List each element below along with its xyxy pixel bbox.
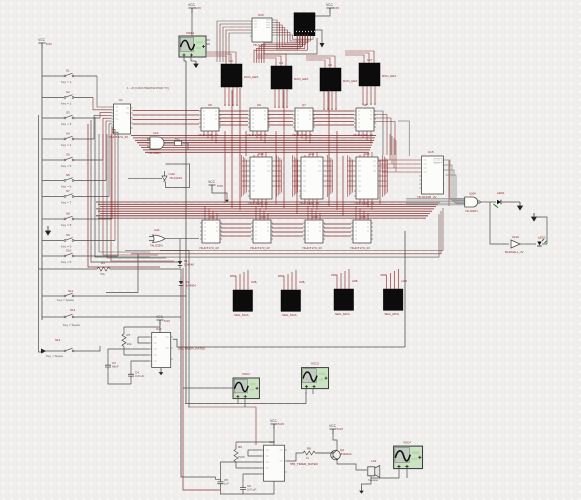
svg-text:555_TIMER_RATED: 555_TIMER_RATED — [290, 462, 318, 466]
svg-text:Key = 2: Key = 2 — [61, 102, 72, 106]
svg-text:1N4004: 1N4004 — [186, 284, 196, 288]
svg-text:U2B: U2B — [352, 279, 358, 283]
svg-text:DCD_HEX: DCD_HEX — [382, 74, 396, 78]
wire feeder from switch S2 to encoder U1 — [93, 98, 112, 110]
svg-text:DCD_HEX: DCD_HEX — [294, 77, 308, 81]
svg-text:74HCT173_4V: 74HCT173_4V — [199, 246, 219, 250]
svg-text:1 - 2f (COUNTER/KEYPAD TV): 1 - 2f (COUNTER/KEYPAD TV) — [127, 86, 169, 90]
svg-text:U2B: U2B — [401, 279, 407, 283]
wire feeder from switch S1 to encoder U1 — [97, 76, 112, 107]
wire bus horizontal between row1 and row2 counters — [131, 135, 376, 137]
wire bus verticals bus B to row3 tops — [204, 206, 206, 220]
wire NAND output to LED1 — [480, 201, 496, 203]
wire right vertical bus x405 from counter block down to 555 output — [404, 231, 406, 347]
wire stubs XSC2 — [237, 399, 239, 404]
svg-text:U4A: U4A — [154, 228, 160, 232]
wire U17 output to counter block — [173, 339, 405, 347]
svg-text:S10: S10 — [66, 249, 72, 253]
svg-text:1N4148: 1N4148 — [184, 263, 194, 267]
svg-text:SEG_MCA: SEG_MCA — [335, 312, 350, 316]
wire bundles between adjacent row1 counters — [219, 110, 248, 112]
svg-text:XSC3: XSC3 — [311, 362, 319, 366]
svg-text:S6: S6 — [66, 173, 70, 177]
svg-text:Key = 1: Key = 1 — [61, 80, 72, 84]
svg-text:Key = Space: Key = Space — [57, 298, 74, 302]
wire stubs below hex display U27 — [362, 86, 364, 105]
wire stubs XSC4 — [371, 469, 399, 479]
svg-text:U30: U30 — [258, 13, 264, 17]
svg-text:70k: 70k — [100, 272, 105, 276]
wire XWF1 output stubs — [184, 56, 186, 61]
svg-text:S12: S12 — [70, 308, 76, 312]
wire VCC V2 down to XWF1 — [191, 13, 193, 36]
wire VCC V4 to ground junction — [212, 190, 227, 197]
power VCC V1 5V keypad rail — [38, 38, 45, 48]
wire bundle from keypad feeders down left of block — [99, 134, 150, 252]
svg-text:U21A: U21A — [512, 235, 519, 239]
power VCC V6 for timer U18 — [270, 419, 277, 429]
power VCC V7 for Q2 — [329, 424, 336, 434]
svg-text:Key = 6: Key = 6 — [61, 185, 72, 189]
svg-text:U5: U5 — [208, 103, 212, 107]
svg-text:LED2: LED2 — [538, 236, 546, 240]
wire stubs above hex display U6B — [278, 276, 284, 290]
svg-text:U6: U6 — [257, 103, 261, 107]
wire feeder from switch S3 to encoder U1 — [100, 113, 112, 118]
wire C5 C6 to U18 — [221, 462, 262, 479]
svg-text:S11: S11 — [68, 289, 73, 293]
wire loop from arrow to LED2 branch — [534, 217, 547, 244]
svg-text:74HCT173_4V: 74HCT173_4V — [350, 246, 370, 250]
svg-text:SEG_MCA: SEG_MCA — [234, 313, 249, 317]
wire side bundles flanking row2 counters — [241, 155, 243, 197]
svg-text:74LS32N: 74LS32N — [150, 244, 163, 248]
svg-text:U7: U7 — [302, 103, 306, 107]
wire bundle right of last row1 counter down to row2 — [374, 111, 383, 155]
svg-text:U1: U1 — [119, 98, 123, 102]
wire feeder from switch S6 to encoder U1 — [106, 121, 112, 181]
wire OR gate output right — [169, 238, 199, 240]
wire XSC2 left connection to vertical pair — [183, 387, 233, 389]
ground below timer U17 — [159, 369, 164, 376]
svg-text:R8: R8 — [307, 447, 311, 451]
svg-text:XWF1: XWF1 — [186, 31, 195, 35]
seven segment display U29 top — [294, 13, 315, 36]
svg-text:S2: S2 — [66, 90, 70, 94]
wire speaker to ground — [362, 476, 372, 487]
svg-text:5.0V: 5.0V — [164, 319, 170, 323]
wire Q2 emitter to speaker — [337, 460, 367, 471]
svg-text:XSC2: XSC2 — [242, 372, 250, 376]
wire bus U30 inputs from first hex display column — [217, 21, 250, 62]
wire long vertical pair to bottom timers — [181, 290, 216, 477]
svg-text:5.0V: 5.0V — [278, 422, 284, 426]
wire bus seven segment display down to hex display row — [264, 34, 297, 63]
wire feeder from switch S7 to encoder U1 — [109, 124, 112, 197]
wire right bundle row2 to U15 — [378, 159, 420, 161]
svg-text:Key = 4: Key = 4 — [61, 143, 72, 147]
wire bundle U15 outputs loop to NAND bus — [446, 160, 465, 199]
wire buffer to LED2 — [520, 243, 536, 245]
svg-text:U13A: U13A — [169, 172, 176, 176]
wire left boundary rails of counter block — [95, 117, 150, 257]
svg-text:DCD_HEX: DCD_HEX — [343, 79, 357, 83]
svg-text:Key = 8: Key = 8 — [61, 223, 72, 227]
diode D1 1N4148 — [179, 259, 181, 262]
svg-text:LED1: LED1 — [497, 191, 505, 195]
wire bus verticals row1 to bus A — [203, 131, 205, 136]
svg-text:S4: S4 — [66, 132, 70, 136]
svg-text:U8: U8 — [363, 103, 367, 107]
svg-text:U15: U15 — [428, 150, 434, 154]
svg-text:7k06: 7k06 — [238, 455, 245, 459]
svg-text:5.0V: 5.0V — [333, 6, 339, 10]
wire VCC V3 down to seven segment display — [314, 13, 330, 16]
wire NAND output branch down to buffer U21A — [490, 202, 509, 244]
svg-text:5.0V: 5.0V — [217, 184, 223, 188]
resistor R12 small box — [175, 141, 182, 146]
svg-text:Key = 3: Key = 3 — [61, 122, 72, 126]
svg-text:5.0V: 5.0V — [337, 427, 343, 431]
svg-text:74HCT173_4V: 74HCT173_4V — [302, 246, 322, 250]
wire stubs above hex display U5B — [230, 276, 236, 290]
svg-text:0.01uF: 0.01uF — [247, 488, 257, 492]
wire LED1 to ground arrow — [502, 201, 520, 203]
power VCC V3 5V (top right) — [326, 3, 333, 13]
ground junction below VCC V4 — [225, 197, 229, 202]
wire R9 to U18 — [235, 442, 237, 449]
wire stubs below hex display U4 — [274, 89, 276, 108]
wire branch from lower bus down to Key Space row — [106, 254, 138, 293]
svg-text:Key = 7: Key = 7 — [61, 201, 72, 205]
wire stubs above hex display U8B — [380, 275, 386, 289]
wire bus verticals row2 bottoms to bus B — [253, 199, 255, 203]
svg-text:5.0V: 5.0V — [46, 42, 52, 46]
svg-text:S8: S8 — [66, 212, 70, 216]
svg-text:S5: S5 — [66, 153, 70, 157]
wire XWF1 long signal vertical to bottom timers — [185, 61, 187, 404]
svg-text:S9: S9 — [66, 233, 70, 237]
wire VCC V6 down to U18 — [273, 429, 275, 445]
ground arrow below XWF1 — [191, 60, 196, 62]
svg-text:R7: R7 — [127, 333, 131, 337]
svg-text:U2B: U2B — [299, 280, 305, 284]
svg-text:74LS30N: 74LS30N — [465, 209, 478, 213]
svg-text:1uF: 1uF — [224, 482, 229, 486]
svg-text:Key = Space: Key = Space — [46, 354, 63, 358]
wire VCC V1 vertical rail down left side — [41, 48, 43, 320]
wire vertical crossers through counter block — [224, 131, 226, 203]
svg-text:BAF04ALL_4V: BAF04ALL_4V — [505, 250, 524, 254]
svg-text:SEG_MCA: SEG_MCA — [282, 313, 297, 317]
wire bundles between adjacent row3 latches — [221, 223, 251, 225]
svg-text:S3: S3 — [66, 111, 70, 115]
ground arrow node upper right — [532, 213, 537, 221]
svg-text:R12: R12 — [175, 137, 180, 141]
svg-text:1k: 1k — [306, 456, 310, 460]
svg-text:Key = 0: Key = 0 — [61, 260, 72, 264]
svg-text:S7: S7 — [66, 189, 70, 193]
wire horizontal from vertical pair to second timer — [185, 392, 306, 404]
wire secondary left rail — [39, 115, 45, 352]
svg-text:U2B: U2B — [251, 280, 257, 284]
svg-text:0.01uF: 0.01uF — [135, 374, 145, 378]
svg-text:U20A: U20A — [469, 192, 476, 196]
svg-text:5.0V: 5.0V — [195, 6, 201, 10]
capacitor C5 1uF — [218, 479, 224, 486]
wire gray input bus into NAND U20A — [406, 197, 465, 199]
svg-text:U27: U27 — [367, 58, 373, 62]
wire feeder from switch S8 to encoder U1 — [111, 127, 114, 219]
wire outer gray loop below U30 — [264, 38, 317, 54]
svg-text:R9: R9 — [238, 445, 242, 449]
wire bus verticals bus A to row2 tops — [253, 155, 255, 157]
svg-text:Speaker: Speaker — [368, 478, 378, 482]
wire VCC V7 to Q2 collector — [333, 434, 337, 450]
wire C3 C4 to U17 — [108, 349, 150, 363]
svg-text:S13: S13 — [55, 338, 61, 342]
junction arrow node below S8 — [46, 226, 51, 235]
svg-text:DCD_HEX: DCD_HEX — [244, 75, 258, 79]
power VCC V4 mid 5V — [208, 180, 215, 190]
wire stubs above hex display U7B — [331, 275, 337, 289]
svg-text:Key = 5: Key = 5 — [61, 164, 72, 168]
junction arrow node left of S13 — [41, 349, 46, 354]
wire bottom vertical from timer1 region down — [216, 477, 221, 479]
power VCC V2 5V rail (top left of decoder) — [188, 3, 195, 13]
svg-text:68nF: 68nF — [112, 365, 119, 369]
wire R7 to U17 pins — [123, 327, 125, 334]
svg-text:LS1: LS1 — [371, 459, 377, 463]
diode D2 1N4004 — [180, 278, 182, 282]
wire feeder from switch S10 to encoder U1 — [112, 132, 119, 256]
wire bus U1 outputs to counter row 1 inputs — [133, 110, 200, 112]
svg-text:R4: R4 — [101, 261, 105, 265]
wire feeder from switch S4 to encoder U1 — [94, 115, 112, 139]
capacitor C3 68nF — [105, 363, 111, 370]
svg-text:S1: S1 — [66, 69, 70, 73]
wire VCC V5 down to U17 — [159, 325, 161, 333]
svg-text:U17: U17 — [156, 327, 162, 331]
capacitor C6 0.01uF — [240, 485, 246, 492]
wire bus horizontal between row2 and row3 — [96, 201, 440, 203]
wire bundle top hex displays to upper bus — [207, 56, 226, 64]
wire stubs XSC3 — [305, 389, 307, 394]
wire stubs below hex display U9 — [323, 91, 325, 110]
wire gray link from row1 elbow to U15 — [398, 121, 409, 156]
wire OR gate output down to diode D1 — [179, 239, 181, 259]
transistor Q2 2N2222A — [331, 450, 341, 460]
svg-text:U2A: U2A — [153, 131, 159, 135]
wire loop around inverter U13A — [128, 177, 162, 179]
svg-text:74LS08N: 74LS08N — [148, 151, 161, 155]
wire feeder from switch S5 to encoder U1 — [103, 118, 112, 160]
wire bus U30 outputs to seven segment display — [274, 20, 298, 50]
svg-text:74LS1G04: 74LS1G04 — [169, 176, 182, 180]
svg-text:Key = Space: Key = Space — [63, 323, 80, 327]
capacitor C4 0.01uF — [128, 372, 134, 379]
svg-text:10k: 10k — [127, 342, 132, 346]
wire gate U2A output to R12 and down — [167, 142, 175, 144]
wire bus hex displays row1 to counters row1 — [224, 104, 226, 106]
power VCC V5 for timer U17 — [156, 315, 163, 325]
ground arrow right of seven segment display — [315, 30, 322, 43]
wire feeder from switch S9 to encoder U1 — [112, 129, 116, 240]
ground arrow after LED1 — [518, 202, 523, 210]
wire horizontal lines below row3 to output column — [125, 208, 443, 251]
wire R4 output down to diode D2 — [180, 269, 182, 278]
wire U18 output to R8 — [287, 453, 303, 461]
svg-text:SEG_MCA: SEG_MCA — [384, 312, 399, 316]
svg-text:XSC4: XSC4 — [403, 441, 411, 445]
svg-text:2N2222A: 2N2222A — [340, 452, 352, 456]
svg-text:74HCT173_4V: 74HCT173_4V — [250, 246, 270, 250]
wire fourth long vertical to bottom section — [160, 251, 189, 408]
wire stubs below hex display U3 — [224, 87, 226, 106]
ground G4 bottom — [359, 487, 364, 494]
